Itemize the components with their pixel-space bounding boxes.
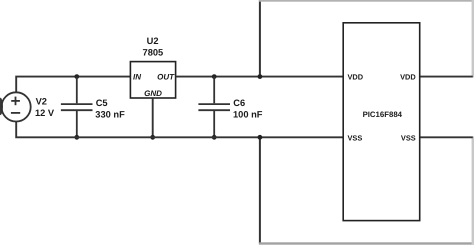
- wire U2 OUT to PIC VDD left pin: [176, 76, 344, 78]
- junction VSS loop: [258, 135, 263, 140]
- label C6 100 nF: [233, 98, 263, 119]
- svg-text:U2: U2: [147, 36, 159, 46]
- svg-text:VDD: VDD: [348, 72, 364, 81]
- svg-text:GND: GND: [144, 89, 162, 98]
- capacitor C6: [198, 77, 230, 138]
- svg-text:VSS: VSS: [348, 133, 363, 142]
- svg-text:VDD: VDD: [400, 72, 416, 81]
- wire VSS loop right vertical (clipped, gray): [472, 136, 474, 244]
- pin OUT: [157, 73, 175, 82]
- label C5 330 nF: [95, 98, 125, 119]
- junction C5 bottom: [74, 135, 79, 140]
- svg-text:VSS: VSS: [401, 133, 416, 142]
- pin VSS left: [348, 133, 363, 142]
- label U2 7805: [143, 36, 164, 58]
- wire VDD loop top (clipped, gray): [259, 0, 474, 2]
- cropped component stub at left edge: [0, 98, 3, 115]
- pin GND: [144, 89, 162, 98]
- wire PIC VDD right stub: [420, 76, 473, 78]
- junction VDD loop: [258, 74, 263, 79]
- junction C5 top: [74, 74, 79, 79]
- svg-text:7805: 7805: [143, 48, 164, 58]
- voltage source V2: [2, 92, 31, 121]
- svg-text:IN: IN: [133, 73, 141, 82]
- svg-text:PIC16F884: PIC16F884: [363, 110, 403, 119]
- wire top net: V2 plus lead to U2 IN: [16, 77, 130, 93]
- junction GND bottom: [150, 135, 155, 140]
- regulator U2 box: [130, 62, 175, 98]
- label PIC16F884: [363, 110, 403, 119]
- wire VSS loop bottom (clipped, gray): [259, 242, 474, 244]
- wire VDD loop left vertical: [259, 0, 261, 78]
- label V2 12 V: [35, 97, 55, 118]
- wire U2 GND lead: [152, 98, 154, 137]
- wire bottom net: V2 minus lead to PIC VSS left pin: [16, 122, 343, 138]
- svg-text:330 nF: 330 nF: [95, 109, 125, 119]
- junction C6 top: [212, 74, 217, 79]
- wire VSS loop left vertical: [259, 136, 261, 243]
- svg-text:OUT: OUT: [157, 73, 175, 82]
- pin VDD left: [348, 72, 364, 81]
- capacitor C5: [61, 77, 93, 138]
- svg-text:V2: V2: [36, 97, 47, 107]
- pin VSS right: [401, 133, 416, 142]
- pin VDD right: [400, 72, 416, 81]
- IC U1 PIC16F884 box: [343, 23, 420, 221]
- svg-text:12 V: 12 V: [35, 108, 55, 118]
- pin IN: [133, 73, 141, 82]
- svg-text:C6: C6: [233, 98, 245, 108]
- wire PIC VSS right stub: [420, 136, 473, 138]
- svg-text:100 nF: 100 nF: [233, 109, 263, 119]
- svg-text:C5: C5: [96, 98, 108, 108]
- wire VDD loop right vertical (clipped, gray): [472, 0, 474, 78]
- junction C6 bottom: [212, 135, 217, 140]
